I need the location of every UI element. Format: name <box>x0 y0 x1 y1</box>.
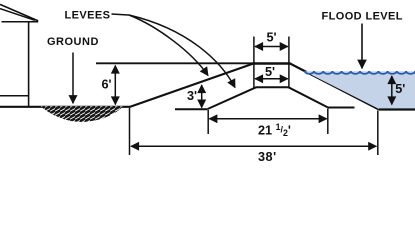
21half dimension arrow <box>209 118 326 120</box>
small levee base right extension <box>328 107 355 109</box>
top 5ft right extension <box>288 37 290 64</box>
38ft right extension <box>377 111 379 156</box>
small levee crest <box>256 86 289 88</box>
svg-text:38': 38' <box>258 150 277 164</box>
small levee right slope <box>288 87 328 107</box>
21half left extension <box>207 110 209 134</box>
top 5ft dimension arrow <box>255 46 288 48</box>
38ft left extension <box>129 108 131 155</box>
flood water fill <box>304 71 415 109</box>
svg-text:5': 5' <box>267 30 277 44</box>
ground leader arrow <box>72 53 74 104</box>
big levee right slope <box>290 64 379 110</box>
house roof upper line <box>0 4 38 21</box>
big levee left slope <box>130 64 254 108</box>
small levee left slope <box>208 87 257 109</box>
svg-text:5': 5' <box>395 82 405 96</box>
levees leader curve to big levee <box>129 15 208 76</box>
svg-text:5': 5' <box>265 65 275 79</box>
ground line <box>0 106 130 108</box>
water bottom line <box>379 108 415 110</box>
6ft dimension arrow <box>114 66 116 105</box>
house floor line <box>0 95 29 97</box>
mid 5ft right extension <box>288 64 290 88</box>
big levee crest <box>253 62 291 64</box>
svg-text:6': 6' <box>102 77 112 91</box>
levees leader dash <box>112 14 130 15</box>
mid 5ft left extension <box>253 64 255 88</box>
top 5ft left extension <box>253 37 255 64</box>
house roof lower line <box>0 9 35 21</box>
38ft dimension arrow <box>131 145 376 147</box>
21half right extension <box>327 109 329 135</box>
ground hatch blob <box>41 106 124 122</box>
levees leader curve to small levee <box>129 15 235 88</box>
crest reference line <box>96 62 253 64</box>
svg-text:LEVEES: LEVEES <box>65 10 111 22</box>
right 5ft dimension arrow <box>391 76 393 105</box>
3ft dimension arrow <box>201 85 203 108</box>
house eave line <box>2 21 39 23</box>
svg-text:3': 3' <box>187 89 197 103</box>
mid 5ft dimension arrow <box>255 78 288 80</box>
svg-text:GROUND: GROUND <box>47 36 99 48</box>
svg-text:FLOOD LEVEL: FLOOD LEVEL <box>322 11 403 23</box>
flood leader arrow <box>361 24 363 69</box>
small levee base left extension <box>175 108 208 110</box>
flood water wavy line <box>305 71 415 74</box>
house wall <box>28 22 30 107</box>
